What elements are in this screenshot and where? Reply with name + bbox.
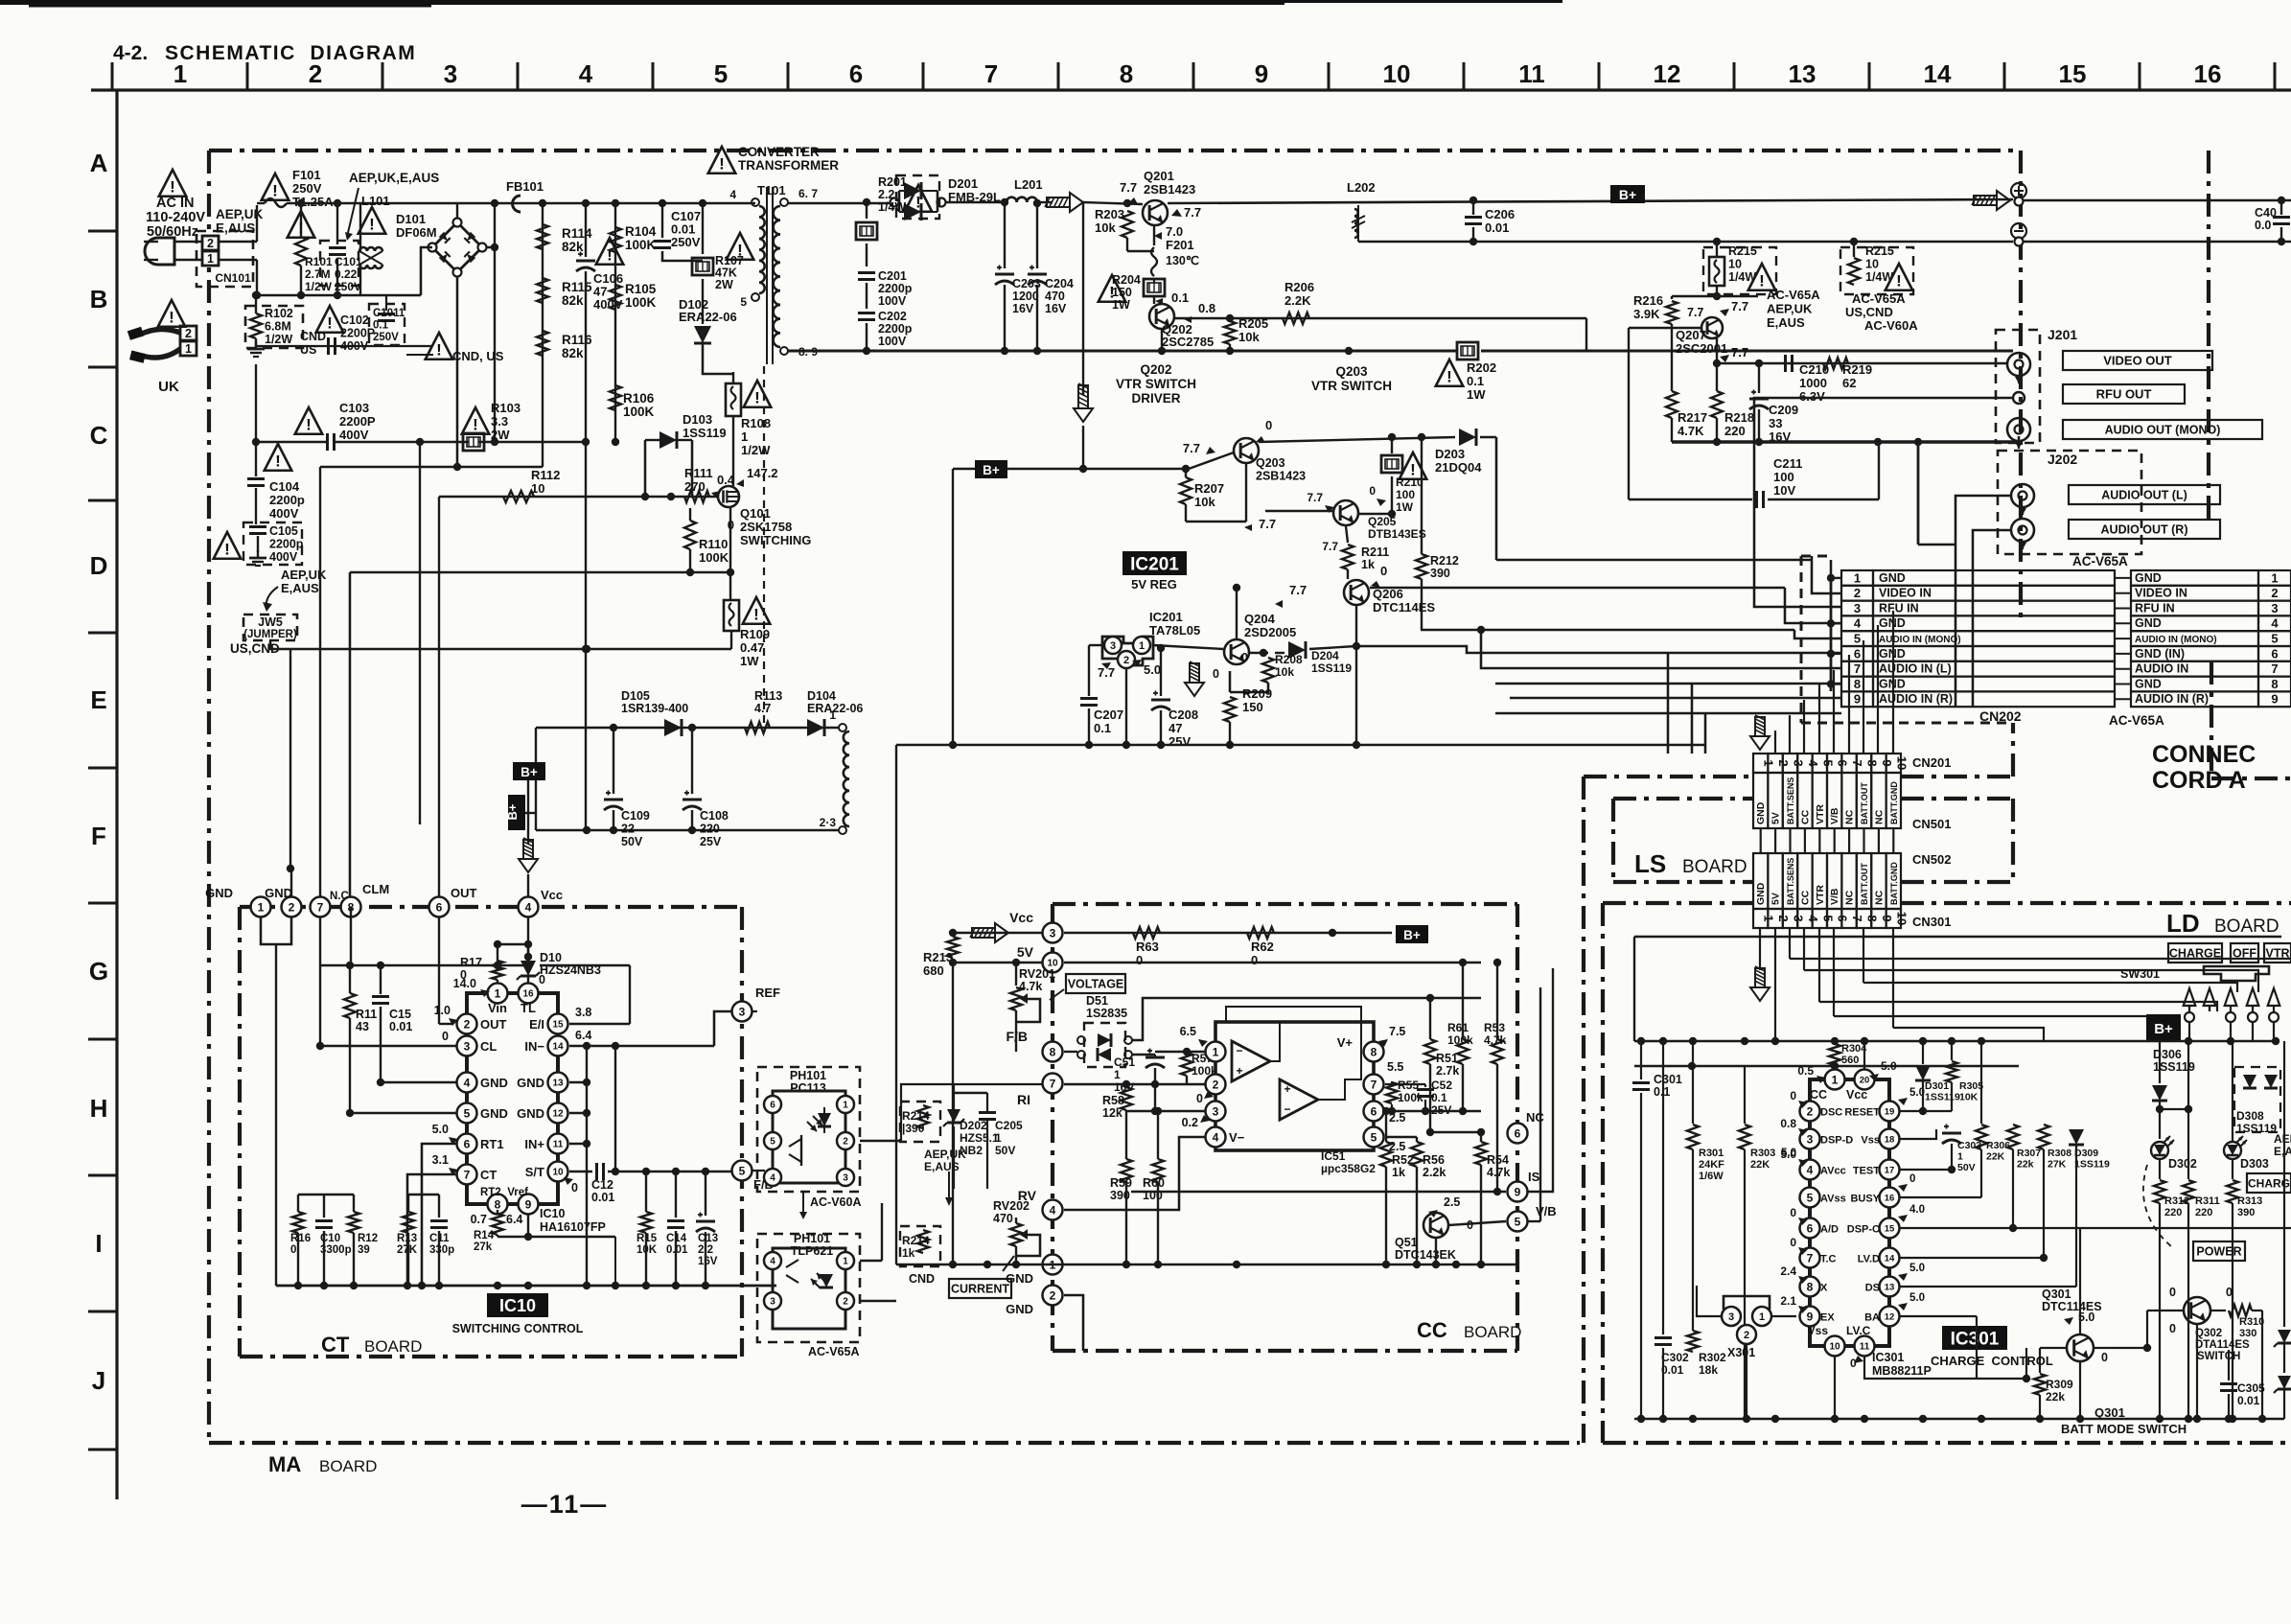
svg-text:PH101: PH101 — [794, 1232, 830, 1245]
svg-text:16V: 16V — [698, 1256, 718, 1267]
svg-text:VTR: VTR — [2266, 947, 2290, 961]
wire D51 up right — [1132, 998, 1481, 1040]
svg-text:7.7: 7.7 — [1183, 441, 1200, 455]
svg-text:CONVERTER: CONVERTER — [738, 145, 820, 159]
resistor R14 — [497, 1210, 498, 1215]
svg-text:RV201: RV201 — [1019, 967, 1055, 981]
diode pack D201 dashed box — [896, 175, 939, 219]
svg-text:LV.D: LV.D — [1858, 1254, 1880, 1265]
diode D309 — [2069, 1129, 2084, 1145]
svg-text:R215: R215 — [1865, 244, 1894, 258]
svg-text:1SS119: 1SS119 — [1925, 1092, 1960, 1103]
svg-text:AC-V65A: AC-V65A — [2109, 713, 2164, 728]
svg-text:5V: 5V — [1017, 944, 1034, 960]
svg-text:Vss: Vss — [1861, 1135, 1880, 1147]
svg-text:TL: TL — [521, 1001, 536, 1015]
resistor R59 — [1121, 1159, 1132, 1182]
bridge wires — [456, 203, 458, 219]
svg-text:R214: R214 — [902, 1234, 930, 1247]
svg-text:BATT.GND: BATT.GND — [1889, 862, 1899, 905]
transistor Q204 — [1224, 639, 1249, 664]
svg-text:R310: R310 — [2239, 1316, 2264, 1328]
svg-text:3: 3 — [1050, 926, 1056, 940]
svg-text:AUDIO IN (MONO): AUDIO IN (MONO) — [1879, 635, 1961, 645]
svg-text:R114: R114 — [562, 226, 592, 241]
svg-text:5.5: 5.5 — [1387, 1060, 1403, 1074]
svg-text:50V: 50V — [621, 835, 643, 848]
resistor R308 — [2038, 1125, 2049, 1149]
svg-text:BOARD: BOARD — [1464, 1323, 1521, 1341]
wire F/B to D51 — [1064, 1051, 1077, 1053]
resistor R52 — [1380, 1142, 1392, 1167]
svg-text:GND: GND — [265, 886, 292, 900]
svg-text:21DQ04: 21DQ04 — [1435, 460, 1482, 475]
capacitor C201 — [858, 271, 875, 274]
svg-text:1: 1 — [185, 342, 192, 356]
capacitor C107 — [661, 203, 663, 238]
svg-text:CURRENT: CURRENT — [951, 1283, 1009, 1296]
crystal X301 — [1722, 1307, 1741, 1326]
svg-text:DTA114ES: DTA114ES — [2195, 1339, 2250, 1351]
wire R17 D10 top link — [498, 943, 528, 945]
svg-text:1000: 1000 — [1799, 376, 1827, 390]
svg-text:1k: 1k — [1361, 558, 1375, 571]
svg-text:BATT.OUT: BATT.OUT — [1860, 863, 1869, 905]
svg-text:2: 2 — [309, 59, 322, 88]
svg-text:9: 9 — [525, 1197, 532, 1211]
wire x612 CT segment — [586, 1046, 588, 1286]
LD second rail — [1634, 1065, 2019, 1067]
svg-text:0: 0 — [2169, 1286, 2176, 1299]
svg-text:7: 7 — [1807, 1251, 1814, 1264]
resistor R309 — [2040, 1347, 2067, 1349]
svg-text:0: 0 — [571, 1181, 578, 1195]
svg-text:24KF: 24KF — [1699, 1159, 1724, 1171]
resistor R313 — [2227, 1180, 2238, 1203]
svg-text:CC: CC — [1810, 1088, 1827, 1102]
svg-text:E,AUS: E,AUS — [281, 581, 319, 595]
POWER box — [2193, 1241, 2245, 1261]
svg-text:3.9K: 3.9K — [1633, 307, 1660, 321]
resistor R206 — [1283, 313, 1309, 324]
transistor Q202 — [1149, 304, 1174, 329]
feed wire A row1 — [1830, 560, 1833, 576]
svg-text:R103: R103 — [491, 401, 521, 415]
wire D202 C205 columns — [953, 1137, 955, 1189]
svg-text:3: 3 — [1110, 640, 1116, 652]
svg-text:AVss: AVss — [1820, 1194, 1846, 1205]
svg-text:R102: R102 — [265, 307, 293, 320]
svg-text:22: 22 — [621, 823, 635, 836]
svg-text:0.5: 0.5 — [1797, 1064, 1814, 1078]
svg-text:1: 1 — [1759, 1311, 1765, 1323]
svg-text:VOLTAGE: VOLTAGE — [1068, 978, 1124, 991]
svg-text:4: 4 — [729, 188, 736, 201]
svg-text:C102: C102 — [340, 313, 369, 327]
wires between tables — [2115, 577, 2131, 579]
svg-text:3: 3 — [739, 1005, 746, 1018]
svg-text:R212: R212 — [1430, 554, 1459, 568]
svg-text:2200P: 2200P — [339, 414, 376, 429]
CC pin7 RI — [1043, 1074, 1063, 1094]
CC pin1 GND — [1043, 1255, 1063, 1275]
svg-text:2200p: 2200p — [269, 538, 304, 551]
svg-text:0.01: 0.01 — [666, 1244, 688, 1256]
resistor R213 — [947, 937, 959, 958]
svg-text:4: 4 — [464, 1076, 471, 1089]
fusible resistor R109 — [729, 572, 731, 599]
svg-text:AC-V60A: AC-V60A — [1864, 318, 1918, 333]
switch contacts — [2185, 1012, 2194, 1022]
svg-text:C302: C302 — [1661, 1351, 1689, 1364]
transistor Q201 — [1143, 200, 1168, 225]
svg-text:0.1: 0.1 — [1094, 721, 1111, 735]
feed wire B video row2 — [1812, 556, 1841, 593]
diode D301 — [1922, 1041, 1924, 1064]
svg-text:!: ! — [1896, 271, 1902, 290]
svg-text:400V: 400V — [269, 550, 298, 564]
svg-text:R105: R105 — [625, 282, 657, 296]
svg-text:4: 4 — [770, 1173, 775, 1184]
wire jumper to row F — [270, 640, 290, 649]
wire Q206 emitter rail y613 — [1370, 587, 1785, 589]
IC301 pin20 — [1855, 1070, 1875, 1090]
svg-text:2.7M: 2.7M — [305, 267, 331, 281]
svg-text:6.8M: 6.8M — [265, 320, 291, 334]
svg-text:C201: C201 — [878, 269, 907, 283]
MA board outline — [209, 149, 2021, 152]
wire IC201 pin2 down — [1125, 668, 1127, 745]
svg-text:390: 390 — [2237, 1207, 2255, 1218]
resistor R306 — [1980, 1041, 1982, 1124]
svg-text:C104: C104 — [269, 479, 300, 494]
svg-text:US,CND: US,CND — [1845, 305, 1893, 319]
wire R217 — [1671, 328, 1673, 391]
svg-text:R313: R313 — [2237, 1195, 2262, 1207]
CT pin 4 Vcc — [519, 897, 539, 917]
svg-text:D104: D104 — [807, 689, 836, 703]
wire R215 to rail — [1716, 242, 1718, 257]
wire Q202 collector down — [1161, 328, 1163, 351]
wire Q302 — [2147, 1310, 2184, 1311]
svg-text:82k: 82k — [562, 346, 584, 360]
svg-text:R108: R108 — [741, 416, 771, 430]
svg-text:AC IN: AC IN — [156, 196, 194, 211]
resistor R201 fusible — [866, 202, 868, 219]
optocoupler PH101 TLP621 dashed box — [757, 1234, 860, 1342]
svg-text:SCHEMATIC DIAGRAM: SCHEMATIC DIAGRAM — [165, 42, 416, 64]
svg-text:100K: 100K — [625, 238, 657, 252]
wire pin3 row — [1126, 1110, 1205, 1112]
svg-text:8: 8 — [495, 1197, 501, 1211]
svg-text:0.01: 0.01 — [1661, 1363, 1684, 1377]
wire pin7 down CL — [319, 916, 321, 1046]
ground R102 — [255, 341, 257, 349]
svg-text:CN202: CN202 — [1979, 708, 2022, 724]
fusible resistor R202 — [1457, 342, 1478, 360]
svg-text:R201: R201 — [878, 175, 907, 189]
svg-text:SWITCHING: SWITCHING — [740, 533, 811, 547]
svg-text:147.2: 147.2 — [747, 466, 778, 480]
wire rail D201 to L201 — [945, 201, 1007, 203]
svg-text:+: + — [1236, 1064, 1242, 1078]
svg-text:0: 0 — [1196, 1092, 1203, 1105]
IC51 pin8 V+ — [1364, 1042, 1384, 1062]
svg-text:CC: CC — [1799, 890, 1811, 905]
wire opto row joins — [860, 1140, 901, 1142]
svg-text:3: 3 — [1807, 1132, 1814, 1146]
wire Q207 cell top — [1672, 295, 1758, 297]
svg-text:RFU OUT: RFU OUT — [2096, 387, 2152, 402]
svg-text:IC301: IC301 — [1872, 1351, 1904, 1364]
svg-text:CN201: CN201 — [1912, 755, 1951, 770]
svg-text:Q206: Q206 — [1373, 587, 1403, 601]
svg-text:10K: 10K — [1959, 1092, 1979, 1103]
svg-text:!: ! — [169, 308, 174, 326]
svg-text:GND: GND — [205, 886, 233, 900]
wire x994 down — [952, 963, 954, 1264]
resistor R311 — [2183, 1180, 2194, 1203]
svg-text:270: 270 — [684, 479, 706, 494]
svg-text:560: 560 — [1841, 1055, 1859, 1066]
svg-text:L202: L202 — [1347, 180, 1376, 195]
op-amp B — [1280, 1079, 1318, 1120]
IC51 pin1 — [1206, 1042, 1226, 1062]
svg-text:R13: R13 — [397, 1233, 417, 1244]
svg-text:IC51: IC51 — [1321, 1149, 1346, 1163]
wire row y597 — [350, 571, 730, 573]
svg-text:2: 2 — [843, 1137, 848, 1148]
resistor R219 — [1823, 358, 1848, 369]
svg-text:20: 20 — [1860, 1075, 1870, 1085]
VOLTAGE box — [1066, 974, 1125, 993]
svg-text:I: I — [95, 1229, 102, 1258]
svg-text:AUDIO IN (R): AUDIO IN (R) — [1879, 692, 1953, 706]
svg-text:IN+: IN+ — [524, 1137, 544, 1151]
svg-text:1SS119: 1SS119 — [2074, 1159, 2110, 1171]
svg-text:CND,: CND, — [300, 330, 330, 343]
svg-text:9: 9 — [1515, 1185, 1521, 1198]
svg-text:J201: J201 — [2048, 327, 2077, 342]
svg-text:10: 10 — [1894, 756, 1909, 770]
svg-text:1SS119: 1SS119 — [2236, 1122, 2277, 1135]
IC10 pin9 Vref — [519, 1195, 539, 1215]
capacitor C108 — [691, 728, 693, 794]
svg-text:R305: R305 — [1959, 1080, 1983, 1092]
left bus into CN202 — [1830, 576, 1833, 691]
svg-text:E,A: E,A — [2274, 1145, 2291, 1158]
svg-text:BOARD: BOARD — [364, 1337, 422, 1356]
svg-text:H: H — [90, 1094, 108, 1123]
plus terminal — [2011, 183, 2026, 198]
svg-text:0: 0 — [2226, 1286, 2233, 1299]
svg-text:DSP-C: DSP-C — [1847, 1224, 1880, 1236]
svg-text:9: 9 — [1255, 59, 1268, 88]
svg-text:10k: 10k — [1275, 665, 1294, 679]
resistor R111 — [684, 491, 709, 502]
svg-text:D105: D105 — [621, 689, 650, 703]
svg-text:R14: R14 — [474, 1230, 495, 1241]
svg-text:0: 0 — [2169, 1322, 2176, 1335]
left ruler line — [115, 90, 118, 1499]
svg-text:R17: R17 — [460, 956, 482, 969]
connector cord corner dash-dot — [2210, 661, 2213, 778]
svg-text:Vcc: Vcc — [1009, 910, 1033, 925]
wire DC+ drop — [494, 203, 496, 442]
svg-text:330: 330 — [2239, 1328, 2256, 1339]
svg-text:8: 8 — [2271, 677, 2278, 691]
svg-text:5.0: 5.0 — [1909, 1292, 1925, 1304]
svg-text:RI: RI — [1017, 1092, 1030, 1107]
svg-text:AC-V60A: AC-V60A — [810, 1195, 862, 1209]
wire D51 right to C51 — [1132, 1054, 1155, 1056]
wire R54 row — [1430, 1131, 1481, 1133]
wire row y487 — [320, 466, 543, 468]
resistor R55 — [1386, 1082, 1398, 1103]
svg-text:D51: D51 — [1086, 994, 1108, 1008]
svg-text:25V: 25V — [700, 835, 722, 848]
svg-text:VTR SWITCH: VTR SWITCH — [1116, 377, 1196, 391]
svg-text:F201: F201 — [1166, 238, 1194, 252]
REF pin3 circle — [732, 1002, 752, 1022]
svg-text:R110: R110 — [699, 537, 728, 551]
svg-text:4: 4 — [1050, 1203, 1056, 1217]
svg-text:D103: D103 — [683, 412, 712, 427]
svg-text:5.0: 5.0 — [1780, 1148, 1796, 1161]
svg-text:!: ! — [915, 193, 921, 211]
svg-text:2200p: 2200p — [878, 322, 913, 336]
svg-text:18k: 18k — [1699, 1363, 1718, 1377]
resistor R60 — [1152, 1159, 1164, 1182]
svg-text:400V: 400V — [340, 339, 369, 353]
wire rail to D201 — [788, 202, 891, 204]
svg-text:0: 0 — [1909, 1173, 1915, 1185]
svg-text:22k: 22k — [2046, 1390, 2065, 1404]
svg-text:IC301: IC301 — [1951, 1329, 2000, 1349]
svg-text:Q202: Q202 — [1140, 362, 1171, 377]
svg-text:UK: UK — [158, 379, 179, 395]
svg-text:IC10: IC10 — [540, 1207, 565, 1220]
wire lower secondary rail right — [1358, 241, 2013, 244]
resistor R301 — [1692, 1041, 1694, 1124]
svg-text:AEP: AEP — [2274, 1132, 2291, 1146]
svg-text:2.2: 2.2 — [878, 188, 894, 201]
CT pin 1 GND — [251, 897, 271, 917]
svg-text:R202: R202 — [1467, 360, 1496, 375]
svg-text:RT1: RT1 — [480, 1137, 504, 1151]
resistor R302 — [1687, 1331, 1699, 1352]
svg-text:1: 1 — [1854, 570, 1861, 585]
svg-text:R211: R211 — [1361, 545, 1389, 559]
svg-text:R203: R203 — [1095, 207, 1124, 221]
svg-text:7: 7 — [317, 900, 324, 914]
svg-text:1: 1 — [2271, 570, 2278, 585]
svg-text:SW301: SW301 — [2120, 967, 2160, 981]
svg-text:100V: 100V — [878, 294, 907, 308]
svg-text:T101: T101 — [757, 183, 786, 197]
svg-text:VTR SWITCH: VTR SWITCH — [1311, 379, 1392, 393]
svg-text:1S2835: 1S2835 — [1086, 1007, 1127, 1020]
svg-text:0.1: 0.1 — [1431, 1091, 1447, 1104]
svg-text:2: 2 — [1744, 1330, 1749, 1341]
svg-text:HA16107FP: HA16107FP — [540, 1220, 606, 1234]
F/B pin5 circle — [732, 1161, 752, 1181]
svg-text:VIDEO OUT: VIDEO OUT — [2103, 354, 2172, 368]
svg-text:R309: R309 — [2046, 1378, 2073, 1391]
svg-text:GND: GND — [2135, 616, 2162, 630]
svg-text:0.8: 0.8 — [1198, 301, 1215, 315]
wire ground row y361 — [256, 345, 431, 347]
svg-text:10: 10 — [531, 481, 544, 496]
svg-text:0.1: 0.1 — [373, 320, 389, 332]
svg-text:6: 6 — [464, 1137, 471, 1150]
IC301 right pins — [1880, 1102, 1900, 1122]
capacitor C104 — [265, 444, 292, 471]
resistor R102 dashed box — [245, 306, 303, 348]
svg-text:7.7: 7.7 — [1731, 345, 1748, 360]
thermal fuse F201 — [1151, 247, 1157, 276]
op-amp A — [1232, 1041, 1270, 1081]
svg-text:5V: 5V — [1770, 893, 1782, 905]
svg-text:AUDIO IN (R): AUDIO IN (R) — [2135, 692, 2209, 706]
svg-text:Q203: Q203 — [1335, 364, 1368, 379]
svg-text:250V: 250V — [671, 235, 701, 249]
svg-text:LD: LD — [2166, 909, 2200, 938]
svg-text:5: 5 — [1371, 1130, 1377, 1144]
svg-text:1: 1 — [1832, 1073, 1839, 1086]
svg-text:0: 0 — [1136, 953, 1143, 967]
capacitor C101 — [320, 241, 359, 286]
svg-text:470: 470 — [993, 1212, 1013, 1225]
svg-text:3: 3 — [2271, 601, 2278, 615]
svg-text:MB88211P: MB88211P — [1872, 1364, 1932, 1378]
svg-text:7.7: 7.7 — [1307, 491, 1323, 504]
wire audio R jack left — [1973, 530, 2011, 707]
svg-text:1W: 1W — [1112, 298, 1130, 312]
capacitor C13 — [705, 1172, 706, 1216]
resistor R208 — [1250, 652, 1268, 654]
svg-text:2: 2 — [207, 237, 214, 250]
svg-text:8: 8 — [1371, 1045, 1377, 1058]
svg-text:220: 220 — [2164, 1207, 2182, 1218]
svg-text:−: − — [1284, 1102, 1290, 1116]
svg-text:1SS119: 1SS119 — [683, 426, 727, 440]
IC10 pin7 CT — [457, 1165, 477, 1185]
transistor Q206 — [1344, 580, 1369, 605]
svg-text:5: 5 — [464, 1106, 471, 1120]
svg-text:GND: GND — [1755, 882, 1767, 905]
wire GND1 rail — [896, 1264, 1517, 1266]
svg-text:GND: GND — [1879, 616, 1906, 630]
svg-text:0.8: 0.8 — [1780, 1117, 1796, 1130]
svg-text:A: A — [90, 149, 108, 177]
LD B+ rail — [1634, 1040, 2276, 1043]
svg-text:4-2.: 4-2. — [113, 42, 148, 64]
svg-text:14: 14 — [1924, 59, 1952, 88]
svg-text:DTB143ES: DTB143ES — [1368, 527, 1426, 541]
svg-text:1: 1 — [995, 1131, 1002, 1145]
svg-text:CORD A: CORD A — [2152, 767, 2246, 794]
svg-text:100K: 100K — [699, 550, 729, 565]
svg-text:0: 0 — [1790, 1206, 1796, 1219]
svg-text:GND: GND — [1879, 647, 1906, 661]
AC plug — [145, 238, 174, 265]
svg-text:22K: 22K — [1750, 1159, 1770, 1171]
svg-text:!: ! — [719, 154, 725, 173]
svg-text:3.8: 3.8 — [575, 1006, 591, 1019]
CC board outline — [1053, 902, 1517, 906]
svg-text:Q204: Q204 — [1244, 612, 1276, 626]
